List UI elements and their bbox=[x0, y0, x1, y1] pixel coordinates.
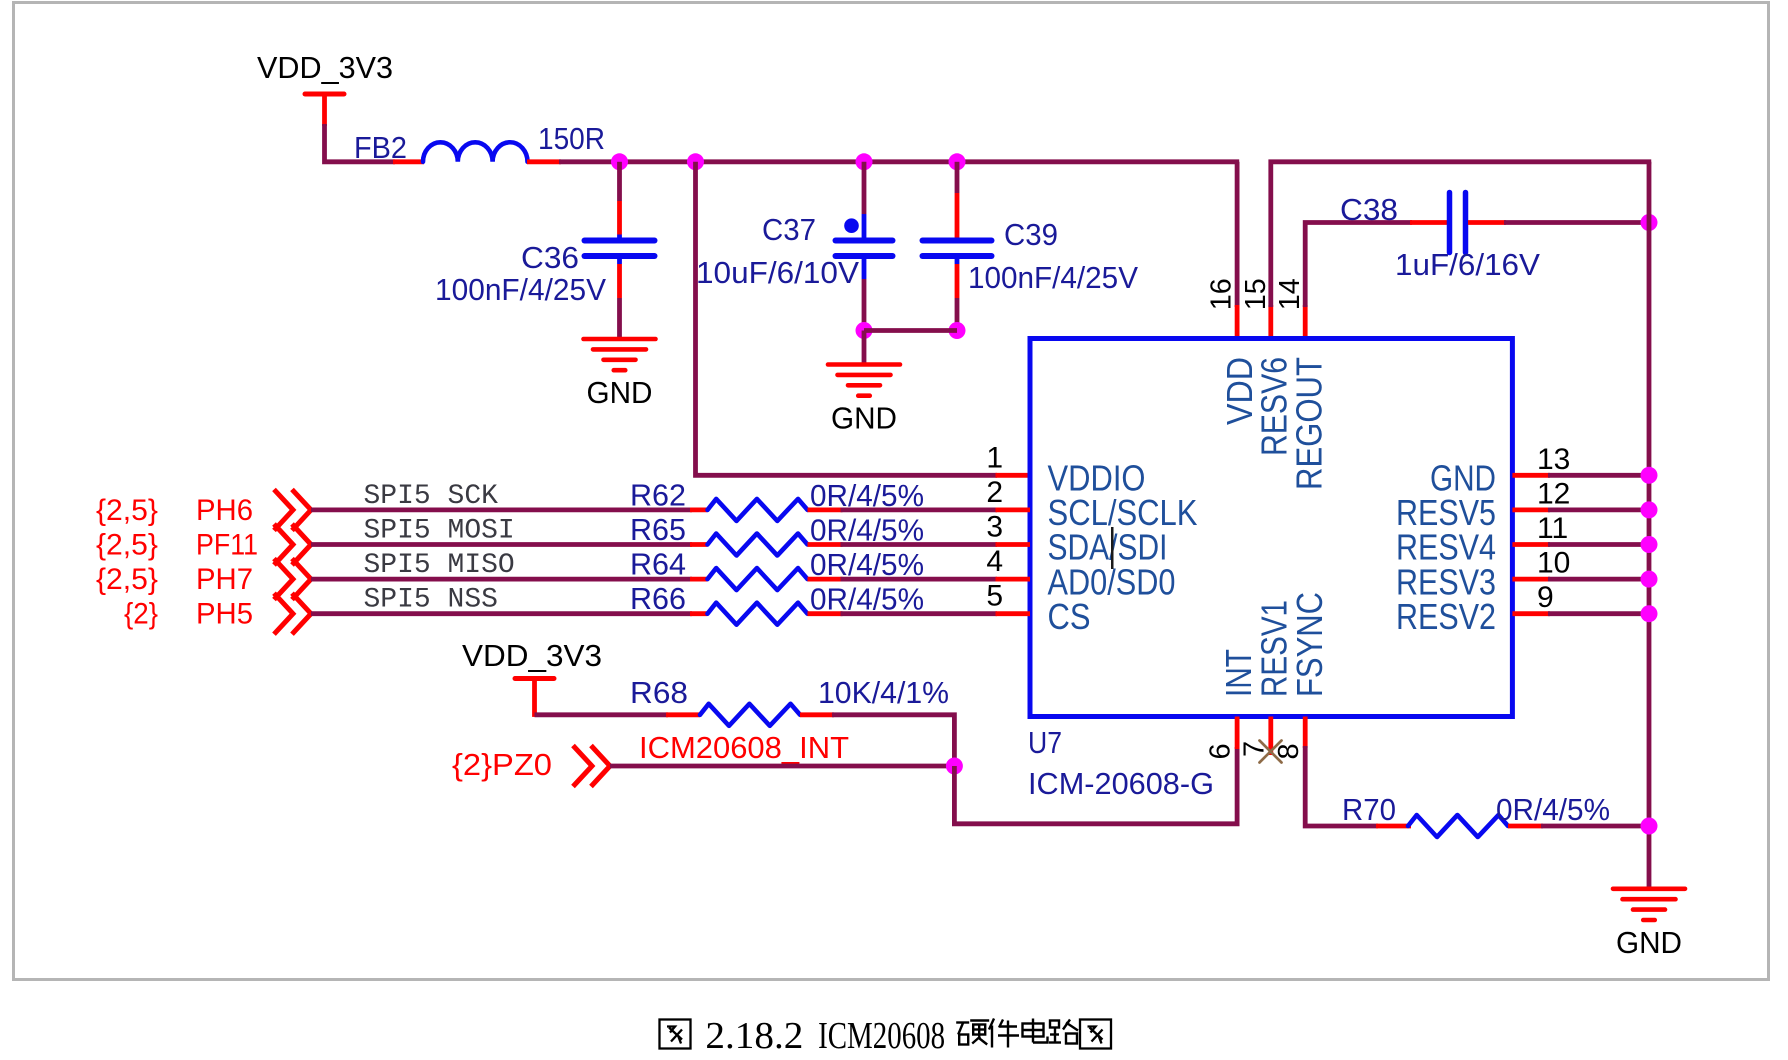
resistor R62 bbox=[630, 477, 808, 521]
svg-text:1uF/6/16V: 1uF/6/16V bbox=[1395, 247, 1540, 282]
wire net SPI5 MOSI left segment bbox=[311, 542, 708, 547]
caption figure number bbox=[660, 1015, 1112, 1057]
svg-text:PF11: PF11 bbox=[196, 529, 258, 562]
svg-text:{2,5}: {2,5} bbox=[96, 563, 158, 596]
svg-text:ICM-20608-G: ICM-20608-G bbox=[1028, 766, 1214, 801]
wire net SPI5 SCK left segment bbox=[311, 507, 708, 512]
svg-text:PH6: PH6 bbox=[196, 494, 253, 527]
wire R70 to gnd bus bbox=[1508, 824, 1649, 829]
wire FB2 to VDD bus bbox=[527, 159, 1239, 164]
wire R68 to INT net bbox=[800, 715, 954, 768]
node junction right bus row 11 bbox=[1641, 536, 1658, 553]
wire C37 to ground bbox=[862, 331, 867, 366]
svg-text:PH5: PH5 bbox=[196, 598, 253, 631]
sheet-entry port PF11 bbox=[96, 524, 311, 565]
wire C37 upper lead bbox=[862, 162, 867, 241]
svg-text:10uF/6/10V: 10uF/6/10V bbox=[696, 255, 859, 290]
svg-text:7: 7 bbox=[1239, 741, 1271, 757]
svg-text:GND: GND bbox=[831, 401, 897, 436]
sheet-entry port PH6 bbox=[96, 489, 311, 530]
sheet-entry port PH7 bbox=[96, 559, 311, 600]
svg-text:100nF/4/25V: 100nF/4/25V bbox=[968, 260, 1138, 295]
svg-text:2.18.2: 2.18.2 bbox=[705, 1015, 803, 1057]
capacitor C39 bbox=[923, 217, 1139, 295]
svg-text:9: 9 bbox=[1537, 581, 1554, 614]
svg-text:4: 4 bbox=[986, 545, 1003, 578]
wire VDD_3V3 to FB2 bbox=[325, 124, 425, 162]
wire C39 upper lead bbox=[955, 162, 960, 241]
wire chip right pin 10 to gnd bus bbox=[1512, 577, 1649, 582]
svg-text:2: 2 bbox=[986, 476, 1003, 509]
svg-text:{2,5}: {2,5} bbox=[96, 494, 158, 527]
wire C37 lower lead bbox=[862, 256, 867, 332]
svg-text:REGOUT: REGOUT bbox=[1289, 357, 1330, 490]
svg-text:0R/4/5%: 0R/4/5% bbox=[1496, 792, 1610, 827]
wire VDD bus down to pin 16 bbox=[1235, 162, 1240, 339]
no-connect cross on pin 7 bbox=[1260, 741, 1282, 763]
node junction VDDIO branch bbox=[687, 153, 704, 170]
svg-text:C37: C37 bbox=[762, 212, 816, 247]
svg-text:12: 12 bbox=[1537, 477, 1570, 510]
ground symbol GND (under C36) bbox=[584, 339, 656, 410]
svg-text:15: 15 bbox=[1240, 278, 1272, 310]
wire chip right pin 13 to gnd bus bbox=[1512, 473, 1649, 478]
node junction C37-C39 gnd tie bbox=[856, 322, 873, 339]
stray text caret artifact bbox=[1111, 527, 1114, 569]
wire C36 upper lead bbox=[617, 162, 622, 241]
svg-text:PH7: PH7 bbox=[196, 563, 253, 596]
svg-text:R65: R65 bbox=[630, 512, 686, 547]
svg-text:10: 10 bbox=[1537, 547, 1570, 580]
svg-text:ICM20608: ICM20608 bbox=[818, 1015, 945, 1057]
ferrite bead FB2 bbox=[354, 130, 528, 165]
wire C39 lower lead bbox=[955, 256, 960, 332]
svg-text:C39: C39 bbox=[1004, 217, 1058, 252]
svg-text:ICM20608_INT: ICM20608_INT bbox=[639, 730, 849, 765]
wire PZ0 to junction bbox=[610, 764, 954, 769]
capacitor C38 bbox=[1340, 192, 1540, 282]
ground symbol GND (bottom right) bbox=[1613, 889, 1685, 960]
svg-text:SPI5 MISO: SPI5 MISO bbox=[364, 550, 515, 581]
svg-text:RESV2: RESV2 bbox=[1396, 596, 1496, 637]
node junction right bus row 13 bbox=[1641, 467, 1658, 484]
wire C39 to C37 gnd tie bbox=[864, 328, 957, 333]
svg-text:14: 14 bbox=[1274, 278, 1306, 310]
resistor R70 bbox=[1342, 792, 1508, 837]
resistor R64 bbox=[630, 547, 808, 591]
wire to pin 1 VDDIO bbox=[696, 162, 1031, 476]
svg-text:VDD_3V3: VDD_3V3 bbox=[257, 50, 393, 85]
wire C38 to right bus bbox=[1468, 220, 1649, 225]
wire chip right pin 9 to gnd bus bbox=[1512, 611, 1649, 616]
wire SPI5 SCK to chip pin bbox=[808, 507, 1031, 512]
wire VDD_3V3 to R68 bbox=[535, 712, 701, 717]
resistor R68 bbox=[630, 675, 800, 726]
wire INT net to pin 6 bbox=[954, 717, 1237, 824]
wire pin 8 FSYNC to R70 bbox=[1305, 717, 1411, 827]
svg-text:13: 13 bbox=[1537, 443, 1570, 476]
svg-text:1: 1 bbox=[986, 441, 1003, 474]
svg-text:100nF/4/25V: 100nF/4/25V bbox=[435, 272, 606, 307]
node junction C39 bottom bbox=[949, 322, 966, 339]
capacitor C37 (polarized) bbox=[696, 212, 893, 290]
svg-text:6: 6 bbox=[1205, 743, 1237, 759]
power symbol VDD_3V3 (at R68) bbox=[462, 638, 602, 717]
wire SPI5 MISO to chip pin bbox=[808, 577, 1031, 582]
svg-text:FB2: FB2 bbox=[354, 130, 407, 165]
svg-text:R66: R66 bbox=[630, 581, 686, 616]
wire REGOUT pin 14 to C38 bbox=[1305, 223, 1447, 339]
svg-text:GND: GND bbox=[587, 375, 653, 410]
svg-text:C36: C36 bbox=[521, 240, 579, 275]
node junction R70 at gnd bus bbox=[1641, 818, 1658, 835]
svg-text:SPI5 NSS: SPI5 NSS bbox=[364, 585, 498, 616]
svg-text:{2,5}: {2,5} bbox=[96, 529, 158, 562]
node junction at C39 tap bbox=[949, 153, 966, 170]
wire right vertical GND bus bbox=[1647, 162, 1652, 888]
svg-text:C38: C38 bbox=[1340, 192, 1398, 227]
svg-text:8: 8 bbox=[1273, 743, 1305, 759]
IC U7 ICM-20608-G body bbox=[1030, 339, 1512, 717]
resistor R65 bbox=[630, 512, 808, 556]
svg-text:{2}PZ0: {2}PZ0 bbox=[452, 747, 552, 782]
svg-text:FSYNC: FSYNC bbox=[1289, 592, 1330, 697]
svg-text:R62: R62 bbox=[630, 477, 686, 512]
node junction INT net bbox=[946, 758, 963, 775]
wire SPI5 MOSI to chip pin bbox=[808, 542, 1031, 547]
svg-text:SPI5 MOSI: SPI5 MOSI bbox=[364, 516, 515, 547]
svg-text:R68: R68 bbox=[630, 675, 688, 710]
wire C36 lower lead bbox=[617, 256, 622, 341]
svg-text:10K/4/1%: 10K/4/1% bbox=[818, 675, 949, 710]
resistor R66 bbox=[630, 581, 808, 625]
wire RESV6 pin 15 to right bus bbox=[1271, 162, 1651, 339]
power symbol VDD_3V3 (top-left) bbox=[257, 50, 393, 126]
pin 7 RESV1 stub (no connect) bbox=[1268, 717, 1273, 756]
wire net SPI5 NSS left segment bbox=[311, 611, 708, 616]
svg-text:3: 3 bbox=[986, 511, 1003, 544]
sheet-entry port PH5 bbox=[124, 593, 311, 634]
wire net SPI5 MISO left segment bbox=[311, 577, 708, 582]
node junction at C37 tap bbox=[856, 153, 873, 170]
svg-text:U7: U7 bbox=[1028, 725, 1062, 760]
svg-text:5: 5 bbox=[986, 580, 1003, 613]
svg-text:CS: CS bbox=[1048, 596, 1091, 637]
wire SPI5 NSS to chip pin bbox=[808, 611, 1031, 616]
node junction right bus row 10 bbox=[1641, 571, 1658, 588]
svg-text:VDD_3V3: VDD_3V3 bbox=[462, 638, 602, 673]
node junction C38 at right bus bbox=[1641, 214, 1658, 231]
svg-text:R70: R70 bbox=[1342, 792, 1396, 827]
sheet-entry port PZ0 bbox=[452, 746, 610, 787]
svg-text:GND: GND bbox=[1616, 925, 1682, 960]
node junction at C36 tap bbox=[611, 153, 628, 170]
node junction right bus row 12 bbox=[1641, 501, 1658, 518]
node junction right bus row 9 bbox=[1641, 605, 1658, 622]
wire chip right pin 12 to gnd bus bbox=[1512, 507, 1649, 512]
svg-text:R64: R64 bbox=[630, 547, 686, 582]
svg-text:11: 11 bbox=[1537, 512, 1568, 545]
svg-text:SPI5 SCK: SPI5 SCK bbox=[364, 481, 499, 512]
svg-text:150R: 150R bbox=[538, 121, 605, 156]
capacitor C36 bbox=[435, 240, 655, 307]
svg-text:16: 16 bbox=[1205, 278, 1237, 310]
wire chip right pin 11 to gnd bus bbox=[1512, 542, 1649, 547]
ground symbol GND (under C37) bbox=[828, 365, 900, 436]
svg-text:{2}: {2} bbox=[124, 598, 158, 631]
